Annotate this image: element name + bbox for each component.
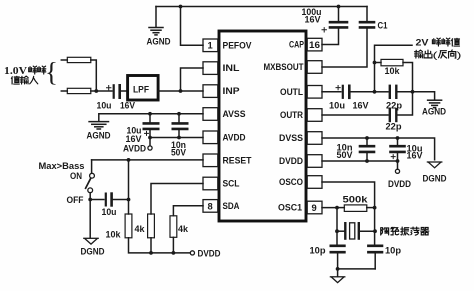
svg-text:OUTL: OUTL xyxy=(280,86,303,97)
capacitor C13 10p right xyxy=(368,245,382,248)
wire output leader xyxy=(375,45,413,62)
node AVSS-C3 xyxy=(148,112,152,116)
terminal AVDD xyxy=(149,138,151,146)
wire OSCO xyxy=(322,182,375,208)
svg-text:INP: INP xyxy=(223,85,240,96)
terminal DVDD right xyxy=(397,161,399,169)
svg-text:INL: INL xyxy=(223,62,240,73)
svg-text:1: 1 xyxy=(208,40,213,51)
pin 11 box xyxy=(307,155,322,168)
wire AVDD rail xyxy=(150,137,203,139)
node OFF xyxy=(88,198,92,202)
capacitor C5 10u xyxy=(90,199,104,201)
node OUTL-right xyxy=(411,90,415,94)
node OUTL-10k xyxy=(373,90,377,94)
ground DGND right xyxy=(427,162,441,168)
svg-text:16: 16 xyxy=(309,39,320,50)
svg-text:OUTR: OUTR xyxy=(280,109,303,120)
svg-text:Max>Bass: Max>Bass xyxy=(39,161,85,171)
pin 8 box xyxy=(203,200,218,213)
svg-text:DVDD: DVDD xyxy=(388,179,412,189)
svg-text:10u: 10u xyxy=(102,207,117,217)
IC U1 body xyxy=(219,31,306,221)
svg-text:OSCO: OSCO xyxy=(279,176,303,187)
node rail-pin1 xyxy=(179,5,183,9)
node resonator left xyxy=(335,229,339,233)
wire to C2 xyxy=(96,90,112,92)
capacitor C6 100u 16V top xyxy=(338,7,340,22)
wire osc bottom rail xyxy=(338,268,376,270)
svg-text:SDA: SDA xyxy=(223,200,240,211)
node DVDD-10n xyxy=(365,159,369,163)
pin 3 box xyxy=(203,85,218,98)
node resonator right xyxy=(373,229,377,233)
svg-text:LPF: LPF xyxy=(133,83,149,94)
svg-text:MXBSOUT: MXBSOUT xyxy=(264,61,304,72)
ground osc xyxy=(337,269,339,277)
wire RESET rail xyxy=(92,159,203,161)
resistor R3 10k xyxy=(125,214,132,238)
capacitor C10 10n 50V xyxy=(366,138,368,146)
wire LPF out xyxy=(158,90,203,92)
capacitor C3 10u 16V xyxy=(149,114,151,123)
resonator X1 xyxy=(337,230,344,232)
svg-text:4k: 4k xyxy=(178,224,188,234)
svg-text:RESET: RESET xyxy=(223,154,252,165)
pin 10 box xyxy=(307,176,322,189)
svg-text:AVSS: AVSS xyxy=(223,108,246,119)
capacitor C4 10n 50V xyxy=(178,114,180,123)
svg-text:10u: 10u xyxy=(97,100,112,110)
resistor R7 500k xyxy=(337,207,344,209)
svg-text:2V: 2V xyxy=(416,37,429,47)
pin 4 box xyxy=(203,108,218,121)
capacitor C11 10u 16V xyxy=(397,138,399,146)
svg-text:C1: C1 xyxy=(378,21,388,31)
pin 16 box xyxy=(307,38,322,51)
ground AGND input xyxy=(99,114,203,122)
node OSCO-500k xyxy=(373,206,377,210)
top ground rail xyxy=(156,6,367,8)
svg-text:DVDD: DVDD xyxy=(198,249,222,259)
svg-text:(: ( xyxy=(433,50,438,60)
capacitor C9 22p xyxy=(389,109,391,121)
svg-text:{: { xyxy=(45,57,58,87)
svg-text:OSC1: OSC1 xyxy=(278,202,302,213)
node LPF out xyxy=(179,89,183,93)
pin 5 box xyxy=(203,131,218,144)
svg-text:16V: 16V xyxy=(120,100,135,110)
svg-text:22p: 22p xyxy=(386,122,403,132)
svg-text:10k: 10k xyxy=(385,66,400,76)
svg-text:DVDD: DVDD xyxy=(279,155,303,166)
wire osc left vert xyxy=(336,208,338,246)
svg-text:16V: 16V xyxy=(353,101,369,111)
svg-text:): ) xyxy=(457,50,462,60)
wire pin1 drop xyxy=(181,7,204,46)
pin 9 box xyxy=(307,201,322,214)
node RESET-vert xyxy=(127,158,131,162)
ground DGND left xyxy=(84,238,98,244)
resistor R2 bottom input xyxy=(61,90,67,92)
capacitor C2 10u 16V xyxy=(113,85,115,97)
svg-text:AGND: AGND xyxy=(87,131,112,141)
svg-text:AVDD: AVDD xyxy=(123,144,147,154)
wire DVSS rail xyxy=(322,138,435,160)
svg-text:22p: 22p xyxy=(386,101,403,111)
wire switch to node xyxy=(89,193,91,200)
node DVSS-10n xyxy=(365,136,369,140)
node DVDD-10u xyxy=(396,159,400,163)
svg-text:SCL: SCL xyxy=(223,178,240,189)
capacitor C8 22p xyxy=(375,91,389,93)
ground AGND top xyxy=(155,7,157,28)
wire OSC1 xyxy=(322,207,337,209)
svg-text:OFF: OFF xyxy=(67,195,85,205)
svg-text:9: 9 xyxy=(312,202,317,213)
wire OUTR xyxy=(322,114,388,116)
svg-text:AVDD: AVDD xyxy=(223,131,246,142)
node input join xyxy=(94,89,98,93)
svg-text:10k: 10k xyxy=(106,229,121,239)
node rail-100u xyxy=(337,5,341,9)
node OSC1-500k xyxy=(335,206,339,210)
capacitor C12 10p left xyxy=(331,245,345,248)
node DVSS-10u xyxy=(396,136,400,140)
node 10k left xyxy=(373,61,377,65)
svg-text:AGND: AGND xyxy=(422,106,447,116)
svg-text:ON: ON xyxy=(70,171,82,181)
node rail-R5 xyxy=(172,251,176,255)
node cap-vert xyxy=(127,198,131,202)
svg-text:4k: 4k xyxy=(135,224,145,234)
ground AGND right xyxy=(413,92,435,100)
resistor R1 top input xyxy=(61,59,67,61)
wire vertical to R3 xyxy=(128,160,130,214)
svg-text:DGND: DGND xyxy=(81,247,106,257)
svg-text:50V: 50V xyxy=(337,150,353,160)
svg-text:16V: 16V xyxy=(407,151,423,161)
svg-text:CAP: CAP xyxy=(289,39,304,50)
svg-text:10p: 10p xyxy=(310,245,327,255)
pin 2 box xyxy=(203,62,218,75)
svg-text:8: 8 xyxy=(208,200,213,211)
node osc gnd xyxy=(336,267,340,271)
pin 7 box xyxy=(203,177,218,190)
resistor R5 4k xyxy=(173,206,203,216)
node AVDD-C4 xyxy=(177,136,181,140)
node AVSS-C4 xyxy=(177,112,181,116)
svg-text:16V: 16V xyxy=(126,134,142,144)
pin 13 box xyxy=(307,109,322,122)
LPF block xyxy=(128,76,159,101)
wire INL branch xyxy=(181,68,204,91)
terminal DVDD bottom xyxy=(190,251,194,255)
pin 1 box xyxy=(203,39,218,52)
svg-text:PEFOV: PEFOV xyxy=(223,39,253,50)
label resonator xyxy=(381,228,389,235)
resistor R6 10k xyxy=(375,62,382,64)
wire 10k left vert xyxy=(374,63,376,92)
node AVDD-C3 xyxy=(148,136,152,140)
node rail-R4 xyxy=(149,251,153,255)
capacitor C7 10u 16V xyxy=(342,86,344,98)
switch SW1 xyxy=(91,160,93,173)
wire OUTL xyxy=(322,91,341,93)
svg-text:500k: 500k xyxy=(343,194,368,204)
svg-text:10u: 10u xyxy=(329,101,345,111)
resistor R4 4k xyxy=(151,184,203,215)
wire osc right vert xyxy=(374,208,376,246)
svg-text:1.0V: 1.0V xyxy=(4,66,28,77)
svg-text:10p: 10p xyxy=(385,245,402,255)
svg-text:16V: 16V xyxy=(305,15,321,25)
pin 12 box xyxy=(307,132,322,145)
svg-text:50V: 50V xyxy=(171,148,186,158)
capacitor C1 xyxy=(366,7,368,22)
pin 6 box xyxy=(203,154,218,167)
wire to DGND xyxy=(89,200,91,238)
svg-text:DGND: DGND xyxy=(423,173,448,183)
wire DVDD rail xyxy=(322,160,398,162)
pin 14 box xyxy=(307,86,322,99)
svg-text:DVSS: DVSS xyxy=(279,132,303,143)
pin 15 box xyxy=(307,61,322,74)
svg-text:AGND: AGND xyxy=(147,37,172,47)
